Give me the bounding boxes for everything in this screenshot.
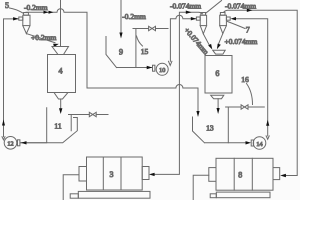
arrow on right -0.074mm line bbox=[247, 9, 253, 12]
pump 12 bbox=[4, 137, 20, 150]
valve (tank 11 water) bbox=[89, 112, 96, 116]
arrow down into tank 13 bbox=[196, 111, 199, 117]
wire: pump10 discharge riser to left cyclone feed bbox=[169, 15, 197, 65]
pump 10 bbox=[153, 63, 169, 75]
unit 6 (tower with funnels) bbox=[205, 50, 232, 108]
arrow up on pump14 riser bbox=[266, 120, 269, 126]
svg-text:15: 15 bbox=[141, 47, 149, 56]
wire: cyclone5 overflow -0.2mm line going right, down, right to tank 13 bbox=[26, 9, 198, 113]
label 15 leader bbox=[137, 36, 143, 46]
wire: left cyclone overflow -0.074mm to mill 3 bbox=[153, 12, 202, 174]
mill 3 bbox=[70, 157, 150, 198]
wire: pump12 discharge riser to cyclone 5 feed bbox=[2, 19, 19, 140]
svg-text:9: 9 bbox=[119, 48, 123, 57]
cyclone 7 (right of pair) bbox=[220, 13, 231, 34]
svg-text:16: 16 bbox=[241, 75, 249, 84]
arrow into pump 12 bbox=[21, 141, 27, 144]
label 5 leader bbox=[10, 8, 24, 13]
arrow from unit4 into tank 11 bbox=[59, 108, 62, 114]
svg-text:5: 5 bbox=[5, 1, 9, 10]
arrow from unit6 into tank 13 bbox=[217, 108, 220, 114]
arrow up on pump12 riser bbox=[2, 120, 5, 126]
arrow into cyclone 5 feed bbox=[13, 17, 19, 20]
wire: feed from top into tank 9 bbox=[120, 0, 122, 33]
water pipe 16 into tank 13 bbox=[226, 107, 265, 143]
arrow (right cyclone underflow) bbox=[217, 44, 221, 50]
arrow into right cyclone feed bbox=[231, 17, 237, 20]
svg-text:14: 14 bbox=[256, 141, 262, 148]
wire: tank9 bottom suction line to pump 10 bbox=[117, 67, 152, 69]
label 7 leader bbox=[228, 22, 246, 29]
wire: feed line from top into unit 4 bbox=[60, 0, 62, 47]
tank 9 bbox=[106, 37, 117, 68]
cyclone 5 bbox=[19, 13, 30, 34]
leader line from left cyclone to top edge bbox=[206, 1, 222, 14]
wire: mill 8 discharge bbox=[193, 175, 209, 200]
svg-text:13: 13 bbox=[206, 124, 214, 133]
tank 11 bbox=[21, 108, 78, 143]
double arrow on -0.2mm line bbox=[44, 11, 49, 14]
arrow into pump 14 bbox=[246, 141, 252, 144]
mill 8 bbox=[209, 158, 280, 197]
arrow into pump 10 bbox=[147, 66, 153, 69]
svg-text:11: 11 bbox=[54, 122, 61, 131]
svg-text:-0.2mm: -0.2mm bbox=[24, 3, 48, 12]
valve (pipe 15) bbox=[149, 26, 156, 30]
unit 4 (tower with funnels) bbox=[48, 47, 76, 109]
arrow (left cyclone underflow) bbox=[208, 44, 212, 50]
label 16 leader bbox=[247, 84, 253, 105]
water pipe 15 with valve bbox=[133, 29, 168, 68]
wire: right cyclone underflow to unit 6 bbox=[218, 34, 223, 45]
svg-text:6: 6 bbox=[215, 69, 219, 78]
wire: left cyclone underflow to unit 6 bbox=[203, 34, 209, 46]
arrow into left cyclone feed bbox=[191, 17, 197, 20]
wire: mill 3 discharge bbox=[63, 175, 79, 200]
svg-text:+0.2mm: +0.2mm bbox=[31, 33, 56, 42]
svg-text:3: 3 bbox=[110, 170, 114, 179]
arrow on -0.074mm line (top) bbox=[186, 11, 192, 14]
wire: tank11 bottom to pump12 inlet bbox=[20, 142, 47, 144]
svg-text:12: 12 bbox=[7, 141, 13, 148]
svg-text:-0.074mm: -0.074mm bbox=[170, 1, 201, 10]
svg-text:-0.2mm: -0.2mm bbox=[122, 12, 146, 21]
arrow on +0.2mm diagonal bbox=[53, 44, 59, 47]
wire: pump14 discharge riser to right cyclone feed bbox=[235, 19, 269, 140]
wire: cyclone5 underflow +0.2mm diagonal to unit 4 bbox=[26, 34, 55, 43]
arrow into mill 8 right end bbox=[280, 174, 286, 177]
pump 14 bbox=[251, 137, 266, 150]
svg-text:8: 8 bbox=[238, 170, 242, 179]
svg-text:+0.074mm: +0.074mm bbox=[225, 37, 258, 46]
svg-text:7: 7 bbox=[246, 26, 250, 35]
tank 13 bbox=[193, 117, 247, 143]
svg-text:-0.074mm: -0.074mm bbox=[225, 1, 256, 10]
cyclone (left of pair, item 7 group) bbox=[196, 13, 206, 34]
valve (pipe 16) bbox=[241, 105, 248, 109]
wire: right cyclone overflow -0.074mm to mill 8 bbox=[224, 10, 297, 175]
water pipe into tank 11 bbox=[69, 115, 109, 131]
svg-text:4: 4 bbox=[59, 67, 63, 76]
arrow into mill 3 right end bbox=[149, 173, 155, 176]
arrow into tank 9 bbox=[119, 33, 122, 39]
svg-text:10: 10 bbox=[159, 67, 165, 74]
